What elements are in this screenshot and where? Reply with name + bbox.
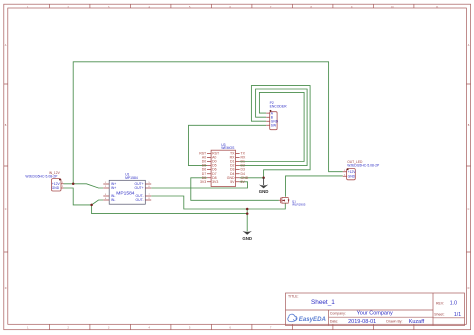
svg-text:8: 8: [311, 6, 313, 9]
wire WEMOS GND net to encoder GND: [240, 86, 311, 178]
svg-text:GND: GND: [259, 189, 269, 194]
svg-text:B: B: [5, 124, 7, 127]
svg-text:10: 10: [391, 6, 394, 9]
wire encoder B to WEMOS D2: [240, 89, 308, 166]
svg-text:GND: GND: [242, 236, 252, 241]
svg-text:OUT-: OUT-: [135, 198, 143, 202]
svg-text:2019-08-01: 2019-08-01: [348, 319, 376, 325]
svg-text:Date:: Date:: [330, 319, 338, 323]
junction J5: [262, 177, 265, 180]
svg-text:1.0: 1.0: [450, 301, 457, 307]
svg-text:MP1584: MP1584: [116, 191, 134, 197]
junction J2: [90, 204, 93, 207]
svg-text:4: 4: [149, 326, 151, 329]
EasyEDA logo: [288, 314, 326, 323]
svg-text:6: 6: [230, 6, 232, 9]
connector P1 IN_12V: [25, 171, 63, 191]
svg-text:11: 11: [436, 6, 439, 9]
svg-text:WJEDG5HC-5.08-2P: WJEDG5HC-5.08-2P: [347, 163, 380, 167]
svg-text:9: 9: [351, 6, 353, 9]
wire IN_12V GND down and to MP1584 IN-: [64, 188, 104, 205]
svg-text:MP1584: MP1584: [125, 176, 138, 180]
regulator module U1 MP1584: [103, 172, 151, 204]
svg-text:WEMOS: WEMOS: [221, 146, 235, 150]
svg-text:IN+: IN+: [111, 186, 116, 190]
svg-text:5: 5: [189, 6, 191, 9]
junction J4: [246, 212, 249, 215]
svg-text:1: 1: [27, 326, 29, 329]
svg-text:Kuzaff: Kuzaff: [409, 319, 425, 325]
svg-text:5V: 5V: [241, 180, 246, 184]
ground GND1: [259, 178, 269, 194]
wire GND bus lower: [92, 205, 248, 214]
wire WEMOS D8 to Q1 gate: [191, 178, 279, 201]
svg-text:3: 3: [108, 6, 110, 9]
svg-text:ENCODER: ENCODER: [270, 105, 288, 109]
wire +12V loop from input to OUT_LED: [73, 62, 343, 184]
svg-text:3: 3: [108, 326, 110, 329]
svg-text:2: 2: [68, 326, 70, 329]
svg-text:A: A: [5, 44, 7, 47]
wire IN_12V +12V to MP1584 IN+: [64, 184, 104, 188]
connector P2 ENCODER: [266, 101, 287, 130]
wire encoder SW to WEMOS D5: [189, 125, 267, 165]
junction J3: [246, 208, 249, 211]
svg-text:7: 7: [270, 326, 272, 329]
svg-text:6: 6: [230, 326, 232, 329]
svg-text:3V3: 3V3: [212, 180, 218, 184]
svg-text:SW: SW: [271, 124, 277, 128]
svg-text:Sheet_1: Sheet_1: [311, 299, 335, 306]
svg-text:GND: GND: [52, 186, 60, 190]
svg-text:A: A: [468, 44, 470, 47]
svg-text:Your Company: Your Company: [357, 310, 393, 316]
svg-text:IRLR2905: IRLR2905: [292, 203, 306, 207]
junction J1: [72, 183, 75, 186]
title block: [286, 293, 465, 326]
svg-text:5: 5: [189, 326, 191, 329]
svg-text:Company:: Company:: [330, 311, 346, 315]
wire MP1584 OUT+ 5V to WEMOS 5V: [151, 182, 247, 188]
svg-text:+12V: +12V: [348, 170, 357, 174]
ground GND2: [242, 231, 252, 241]
svg-text:C: C: [468, 208, 470, 211]
transistor Q1 IRLR2905: [279, 197, 306, 207]
wire encoder A to WEMOS D1: [240, 92, 305, 161]
svg-text:REV:: REV:: [436, 302, 444, 306]
svg-text:EasyEDA: EasyEDA: [299, 316, 326, 323]
svg-text:3V3: 3V3: [200, 180, 206, 184]
svg-text:2: 2: [68, 6, 70, 9]
svg-text:GND: GND: [348, 175, 356, 179]
svg-text:Sheet:: Sheet:: [434, 313, 444, 317]
wire GND2 stem: [246, 209, 248, 231]
svg-text:5V: 5V: [230, 180, 235, 184]
svg-text:TITLE:: TITLE:: [288, 295, 299, 299]
svg-text:IN-: IN-: [111, 198, 116, 202]
svg-text:OUT+: OUT+: [134, 186, 143, 190]
svg-text:D: D: [5, 287, 7, 290]
svg-text:D: D: [468, 287, 470, 290]
svg-text:4: 4: [149, 6, 151, 9]
wire MP1584 OUT- to Q1 source: [151, 196, 285, 209]
module U3 WEMOS D1 mini: [199, 143, 249, 187]
svg-text:1/1: 1/1: [454, 312, 461, 318]
svg-text:C: C: [5, 208, 7, 211]
svg-text:7: 7: [270, 6, 272, 9]
svg-text:Drawn By:: Drawn By:: [386, 319, 402, 323]
svg-text:WJEDG5HC-5.08-2P: WJEDG5HC-5.08-2P: [25, 174, 58, 178]
connector P3 OUT_LED: [343, 160, 380, 180]
svg-text:1: 1: [27, 6, 29, 9]
svg-text:B: B: [468, 124, 470, 127]
wire Q1 drain to OUT_LED GND: [286, 176, 343, 197]
